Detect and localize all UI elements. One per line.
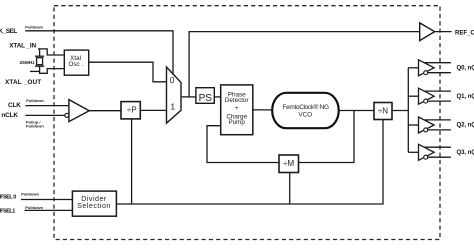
- svg-text:Pulldown: Pulldown: [25, 205, 43, 210]
- svg-text:Pump: Pump: [228, 119, 245, 126]
- svg-text:IFSEL 0: IFSEL 0: [0, 194, 16, 200]
- svg-text:25MHz: 25MHz: [20, 60, 36, 66]
- REF output buffer: [420, 23, 435, 41]
- wire output distribution vertical: [407, 68, 409, 153]
- svg-text:Detector: Detector: [225, 97, 249, 104]
- svg-text:XTAL _OUT: XTAL _OUT: [5, 79, 41, 86]
- wire XTAL_OUT: [30, 70, 40, 72]
- output buffer Q2: [408, 117, 451, 133]
- wire XTAL_IN to crystal top / osc upper input: [38, 49, 64, 55]
- svg-text:Osc .: Osc .: [68, 61, 83, 68]
- svg-text:PS: PS: [199, 93, 213, 104]
- svg-text:+: +: [235, 105, 239, 112]
- svg-text:FemtoClock® NG: FemtoClock® NG: [283, 103, 329, 111]
- divider P box: [121, 102, 140, 119]
- wire FSEL0: [21, 199, 72, 201]
- svg-text:÷P: ÷P: [127, 105, 137, 114]
- wire divider N out to output distribution: [392, 110, 408, 112]
- svg-text:IFSEL1: IFSEL1: [0, 208, 15, 214]
- divider N box: [374, 103, 392, 120]
- svg-text:0: 0: [170, 75, 175, 85]
- output buffer Q1: [408, 88, 451, 104]
- output buffer Q3: [408, 144, 451, 160]
- svg-text:÷M: ÷M: [283, 159, 294, 168]
- wire PS out to phase detector: [214, 96, 220, 98]
- svg-text:1: 1: [170, 101, 175, 111]
- svg-text:Pulldown: Pulldown: [26, 124, 44, 129]
- svg-text:CLK: CLK: [8, 102, 21, 109]
- svg-text:Q2, nQ: Q2, nQ: [457, 122, 474, 129]
- wire crystal bottom to osc lower input: [40, 66, 65, 73]
- input buffer U2 (diff receiver): [69, 100, 89, 122]
- wire buffer out to divider P: [89, 110, 121, 112]
- svg-text:CLK_SEL: CLK_SEL: [0, 28, 17, 35]
- wire osc output to mux input 0: [89, 62, 167, 82]
- crystal X1 body: [37, 58, 43, 65]
- divider M box: [279, 155, 299, 173]
- divider selection box: [72, 191, 116, 216]
- svg-text:Pulldown: Pulldown: [26, 98, 44, 103]
- inversion bubble on nCLK input: [65, 113, 69, 117]
- svg-text:Pulldown: Pulldown: [25, 25, 43, 30]
- VCO U3 FemtoClock NG: [272, 93, 339, 128]
- output buffer Q0: [408, 60, 451, 76]
- wire CLK_SEL to mux select: [25, 31, 173, 74]
- crystal X1 bottom plate: [35, 65, 44, 67]
- wire VCO out branch down to divider M: [299, 111, 355, 163]
- svg-text:VCO: VCO: [298, 111, 312, 118]
- wire FSEL1: [25, 209, 73, 211]
- svg-text:÷N: ÷N: [378, 106, 388, 115]
- oscillator U1 Xtal Osc: [64, 50, 88, 75]
- wire phase detector out to VCO: [253, 109, 272, 111]
- svg-text:Pulldown: Pulldown: [21, 192, 39, 197]
- svg-text:nCLK: nCLK: [1, 112, 18, 119]
- svg-text:XTAL _IN: XTAL _IN: [9, 43, 36, 50]
- prescaler PS box: [196, 88, 214, 104]
- wire crystal top drop: [39, 49, 41, 56]
- svg-text:REF_C: REF_C: [455, 30, 474, 37]
- wire feedback divider M out to phase detector: [207, 126, 279, 163]
- wire CLK: [25, 105, 69, 107]
- svg-text:Selection: Selection: [77, 202, 111, 210]
- wire mux out to PS: [181, 96, 196, 98]
- wire nCLK: [25, 114, 64, 116]
- crystal X1 top plate: [35, 55, 44, 57]
- wire REF buffer out: [435, 31, 452, 33]
- mux M1: [167, 67, 182, 123]
- device boundary (dashed): [54, 6, 440, 240]
- wire divider M select: [289, 173, 291, 205]
- svg-text:Q0, nQ: Q0, nQ: [457, 65, 474, 72]
- svg-text:Q1, nQ: Q1, nQ: [457, 93, 474, 100]
- svg-text:Q3, nQ: Q3, nQ: [457, 149, 474, 156]
- wire VCO out to divider N: [339, 110, 374, 112]
- wire divider P out to mux input 1: [140, 109, 166, 111]
- wire divider select bus: [116, 120, 383, 205]
- wire divider P select: [131, 119, 133, 204]
- phase detector + charge pump box: [221, 85, 253, 135]
- wire REF tap to REF buffer: [189, 32, 420, 97]
